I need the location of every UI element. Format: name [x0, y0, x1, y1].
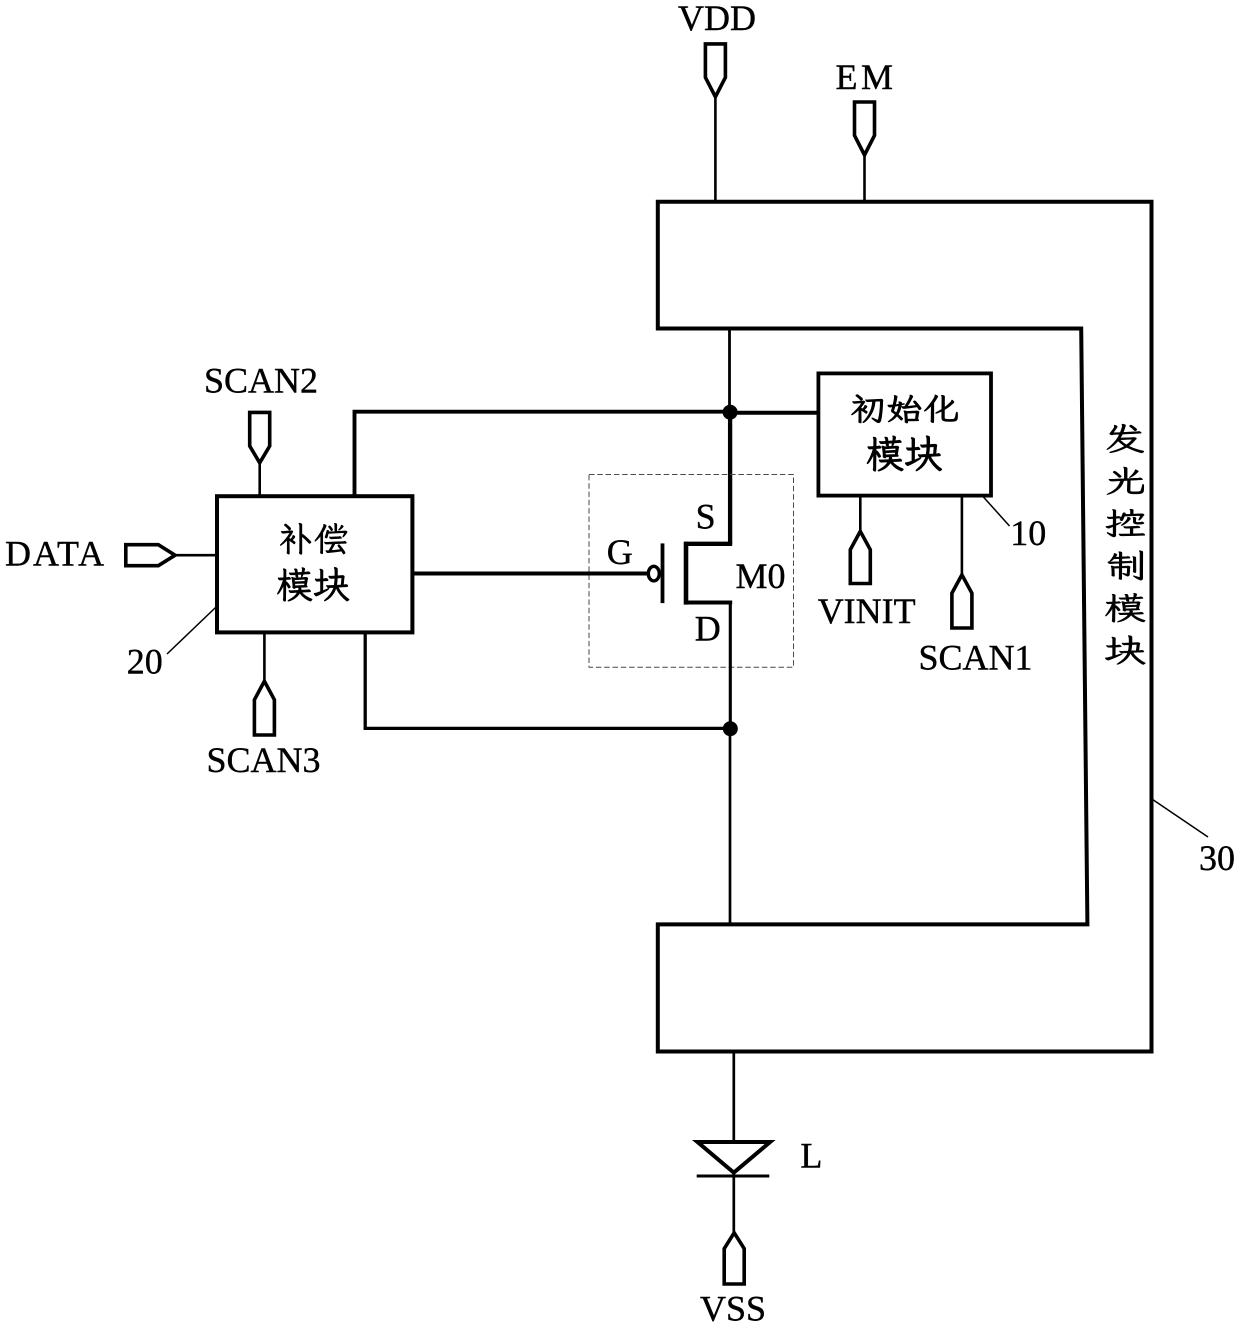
svg-text:G: G: [607, 532, 633, 572]
light emitting diode L (anode triangle): [698, 1142, 771, 1173]
label char 块 of emission control module: [1105, 636, 1145, 665]
wire node A to initialization module: [730, 411, 819, 415]
leader line to reference 30: [1153, 800, 1208, 837]
transistor M0 drain wire: [684, 600, 732, 604]
svg-text:10: 10: [1010, 513, 1046, 553]
data terminal DATA: [5, 534, 175, 574]
svg-text:SCAN1: SCAN1: [919, 638, 1033, 678]
svg-text:D: D: [695, 608, 721, 648]
wire compensation module to node A (L-shape): [355, 412, 731, 497]
diode L cathode bar: [697, 1175, 770, 1178]
leader line to reference 10: [983, 497, 1010, 527]
initialization module box 10 (初始化模块): [818, 373, 991, 495]
transistor M0 channel: [684, 542, 689, 605]
wire emission block bottom to diode L: [732, 1052, 735, 1143]
wire compensation module to SCAN3: [263, 632, 266, 681]
svg-text:20: 20: [127, 642, 163, 682]
label char 模 of emission control module: [1105, 593, 1145, 622]
supply terminal VINIT: [818, 531, 916, 631]
label char 光 of emission control module: [1107, 467, 1144, 495]
svg-text:DATA: DATA: [5, 534, 106, 574]
transistor M0 gate bubble (p-type): [648, 566, 659, 581]
label 模块 line 2: [277, 567, 349, 601]
transistor M0 source wire: [684, 542, 732, 546]
wire EM to emission block: [863, 155, 866, 202]
dashed box around driving transistor M0: [589, 475, 794, 668]
wire diode L to VSS: [732, 1174, 735, 1233]
svg-text:VDD: VDD: [678, 0, 756, 38]
node B (junction dot): [723, 721, 738, 736]
wire from emission block top bar down to node A: [728, 329, 731, 414]
svg-text:30: 30: [1199, 838, 1235, 878]
transistor M0 gate bar: [661, 543, 665, 603]
wire node A down to transistor source: [728, 413, 732, 544]
label char 制 of emission control module: [1108, 551, 1143, 581]
wire initialization module to VINIT: [859, 496, 862, 532]
svg-text:EM: EM: [836, 57, 897, 97]
leader line to reference 20: [167, 607, 217, 655]
label 补偿 line 1: [280, 523, 347, 554]
wire compensation module bottom to node B (L-shape): [365, 632, 730, 728]
label char 发 of emission control module: [1107, 424, 1144, 453]
svg-text:L: L: [800, 1135, 822, 1175]
label 初始化 line 1: [852, 395, 958, 423]
emission control module block 30 (发光控制模块): [658, 202, 1152, 1052]
wire node B down to emission block bottom bar: [729, 729, 732, 925]
compensation module box 20 (补偿模块): [217, 496, 412, 632]
control terminal EM: [836, 57, 897, 155]
svg-text:M0: M0: [736, 556, 786, 596]
svg-text:SCAN2: SCAN2: [204, 361, 318, 401]
svg-text:VINIT: VINIT: [818, 591, 916, 631]
wire DATA to compensation module: [175, 554, 217, 557]
power terminal VDD: [678, 0, 756, 97]
wire transistor drain down to node B: [729, 603, 732, 730]
scan terminal SCAN3: [207, 681, 321, 780]
power terminal VSS: [700, 1233, 766, 1329]
label char 控 of emission control module: [1106, 509, 1145, 537]
scan terminal SCAN1: [919, 575, 1033, 678]
node A (junction dot): [723, 405, 738, 420]
label 模块 line 2: [867, 436, 942, 471]
svg-text:VSS: VSS: [700, 1288, 766, 1328]
wire initialization module to SCAN1: [961, 496, 964, 575]
wire VDD to emission block: [714, 97, 717, 202]
svg-text:S: S: [696, 496, 716, 536]
scan terminal SCAN2: [204, 361, 318, 463]
wire compensation module to gate G: [412, 572, 647, 576]
wire SCAN2 to compensation module: [258, 463, 261, 496]
svg-text:SCAN3: SCAN3: [207, 740, 321, 780]
